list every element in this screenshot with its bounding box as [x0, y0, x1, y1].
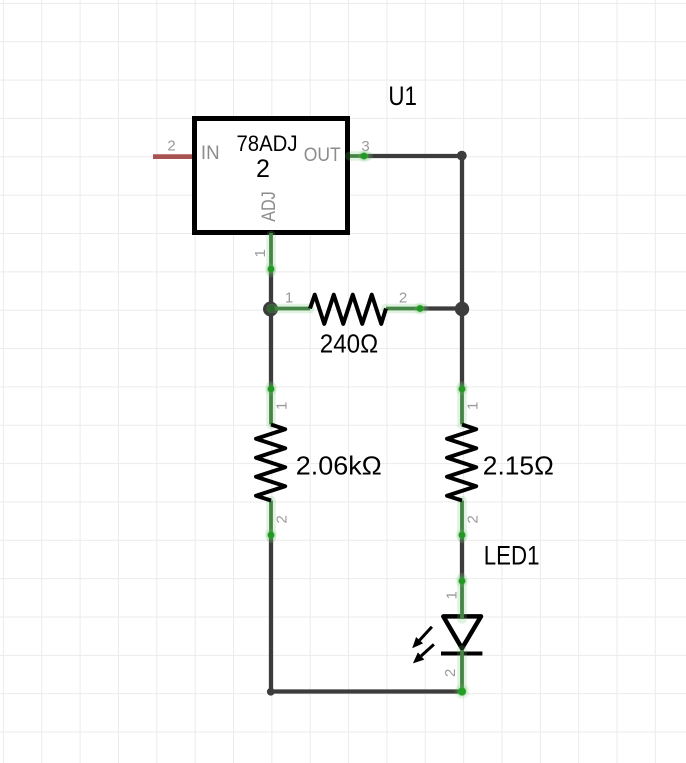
svg-text:2: 2: [273, 515, 290, 523]
LED1 cathode bar: [441, 652, 482, 656]
resistor R3 pin2 green stub: [455, 501, 469, 543]
pin number 1 at LED rotated: [443, 591, 460, 599]
svg-text:2: 2: [465, 515, 482, 523]
svg-text:IN: IN: [201, 142, 220, 164]
svg-text:2: 2: [399, 290, 407, 307]
resistor R2 pin2 green stub: [264, 501, 278, 543]
label 78ADJ line1: [237, 131, 298, 156]
svg-text:2.06kΩ: 2.06kΩ: [296, 451, 382, 481]
pin name OUT: [304, 144, 341, 166]
pin name ADJ rotated: [258, 191, 280, 222]
pin number 3 at OUT: [361, 138, 369, 155]
LED1 pin2 green stub: [454, 650, 471, 700]
wire bottom horizontal: [271, 689, 462, 693]
resistor R3 2.15 zigzag: [447, 425, 476, 501]
label 78ADJ line2 value 2: [256, 155, 270, 183]
node junction B: [455, 302, 469, 316]
node junction A: [263, 302, 278, 317]
value 2.15 ohm: [483, 451, 554, 481]
op-amp U1 regulator box 78ADJ: [195, 119, 348, 233]
svg-text:U1: U1: [388, 81, 417, 111]
LED1 diode triangle: [443, 616, 481, 648]
node corner top-right: [457, 151, 467, 161]
wire right vertical from corner down to R3: [460, 156, 464, 387]
svg-text:1: 1: [465, 402, 482, 410]
wire R1 pin2 to right junction B: [422, 306, 462, 310]
LED1 arrow 1: [412, 627, 432, 649]
label U1: [388, 81, 417, 111]
pin number 1 at R3 rotated: [465, 402, 482, 410]
pin number 2 at R3 rotated: [465, 515, 482, 523]
svg-text:1: 1: [252, 249, 269, 257]
svg-text:1: 1: [285, 290, 293, 307]
svg-text:240Ω: 240Ω: [320, 329, 378, 359]
pin number 2 at R1: [399, 290, 407, 307]
svg-text:78ADJ: 78ADJ: [237, 131, 298, 156]
pin number 1 at R1: [285, 290, 293, 307]
svg-text:OUT: OUT: [304, 144, 341, 166]
pin number 1 at ADJ rotated: [252, 249, 269, 257]
pin 1 ADJ green stub: [264, 233, 278, 276]
pin 3 OUT green stub: [350, 149, 371, 163]
LED1 pin1 green stub: [455, 574, 469, 619]
wire R2 pin2 down to bottom-left corner: [269, 537, 273, 692]
svg-text:1: 1: [443, 591, 460, 599]
resistor R1 pin2 green stub: [386, 302, 427, 316]
resistor R3 pin1 green stub: [455, 382, 469, 425]
svg-text:2.15Ω: 2.15Ω: [483, 451, 554, 481]
svg-text:2: 2: [256, 155, 270, 183]
wire junction A down to R2: [269, 309, 273, 388]
resistor R1 240 zigzag: [310, 295, 386, 324]
wire ADJ pin to junction A: [269, 270, 273, 309]
value 2.06k ohm: [296, 451, 382, 481]
wire R3 pin2 to LED pin1: [460, 537, 464, 580]
svg-text:LED1: LED1: [484, 540, 540, 570]
node corner bottom-left: [267, 688, 275, 696]
svg-text:2: 2: [167, 138, 175, 155]
resistor R1 pin1 green stub: [267, 305, 310, 313]
pin number 2 at R2 rotated: [273, 515, 290, 523]
wire OUT pin to top-right corner: [360, 154, 462, 158]
svg-text:2: 2: [442, 669, 459, 677]
label LED1: [484, 540, 540, 570]
pin 2 IN red stub: [153, 154, 192, 159]
pin number 2 at IN: [167, 138, 175, 155]
pin name IN: [201, 142, 220, 164]
svg-text:3: 3: [361, 138, 369, 155]
LED1 arrow 2: [413, 644, 434, 663]
svg-text:ADJ: ADJ: [258, 191, 280, 222]
resistor R2 2.06k zigzag: [256, 425, 285, 501]
pin number 1 at R2 rotated: [274, 402, 291, 410]
pin number 2 at LED rotated: [442, 669, 459, 677]
resistor R2 pin1 green stub: [264, 382, 278, 425]
value 240 ohm: [320, 329, 378, 359]
svg-text:1: 1: [274, 402, 291, 410]
